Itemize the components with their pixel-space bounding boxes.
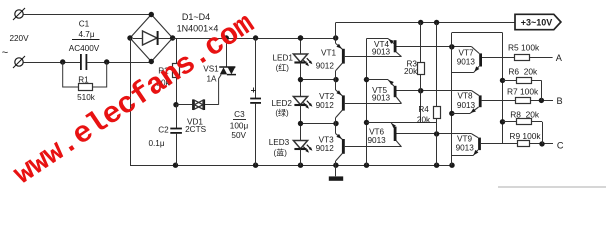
svg-text:9012: 9012 [316,144,335,153]
svg-text:(绿): (绿) [275,109,289,118]
svg-text:LED1: LED1 [272,53,293,62]
svg-text:A: A [556,53,563,63]
svg-text:R1: R1 [78,76,89,85]
svg-text:(红): (红) [276,63,290,73]
svg-text:VT6: VT6 [369,127,384,136]
svg-text:R5 100k: R5 100k [508,43,540,53]
svg-text:9012: 9012 [316,61,335,70]
svg-text:C: C [557,141,564,151]
svg-text:C3: C3 [234,110,245,119]
svg-text:220V: 220V [9,34,29,43]
svg-text:~: ~ [2,47,8,59]
svg-text:LED2: LED2 [271,99,292,108]
svg-text:20k: 20k [404,67,418,76]
svg-text:R6 20k: R6 20k [508,66,538,76]
svg-text:D1~D4: D1~D4 [182,12,210,22]
svg-text:R8 20k: R8 20k [510,109,540,119]
svg-text:1A: 1A [206,75,217,84]
svg-text:9013: 9013 [372,48,391,57]
svg-text:B: B [557,96,563,106]
svg-text:C1: C1 [79,20,90,29]
svg-text:9013: 9013 [456,143,475,152]
svg-text:20k: 20k [417,115,431,124]
svg-text:9012: 9012 [316,101,335,110]
svg-text:(蓝): (蓝) [274,148,288,158]
svg-text:9013: 9013 [457,101,476,110]
svg-text:2CTS: 2CTS [185,125,206,134]
svg-text:R9 100k: R9 100k [509,131,541,141]
svg-text:VT7: VT7 [458,49,473,58]
svg-text:100μ: 100μ [230,122,249,131]
svg-text:VT1: VT1 [321,49,336,58]
svg-text:AC400V: AC400V [69,44,100,53]
svg-text:R7 100k: R7 100k [507,86,539,96]
svg-text:LED3: LED3 [269,138,290,147]
svg-text:R4: R4 [418,105,429,114]
svg-text:9013: 9013 [367,136,386,145]
svg-text:9013: 9013 [457,58,476,67]
svg-text:C2: C2 [158,126,169,135]
svg-text:510k: 510k [77,93,96,102]
svg-text:0.1μ: 0.1μ [148,139,164,148]
svg-text:VT9: VT9 [457,134,472,143]
svg-text:VT8: VT8 [457,92,472,101]
svg-text:+3~10V: +3~10V [521,17,553,27]
svg-text:50V: 50V [231,131,246,140]
svg-text:9013: 9013 [372,94,391,103]
svg-text:4.7μ: 4.7μ [78,30,94,39]
